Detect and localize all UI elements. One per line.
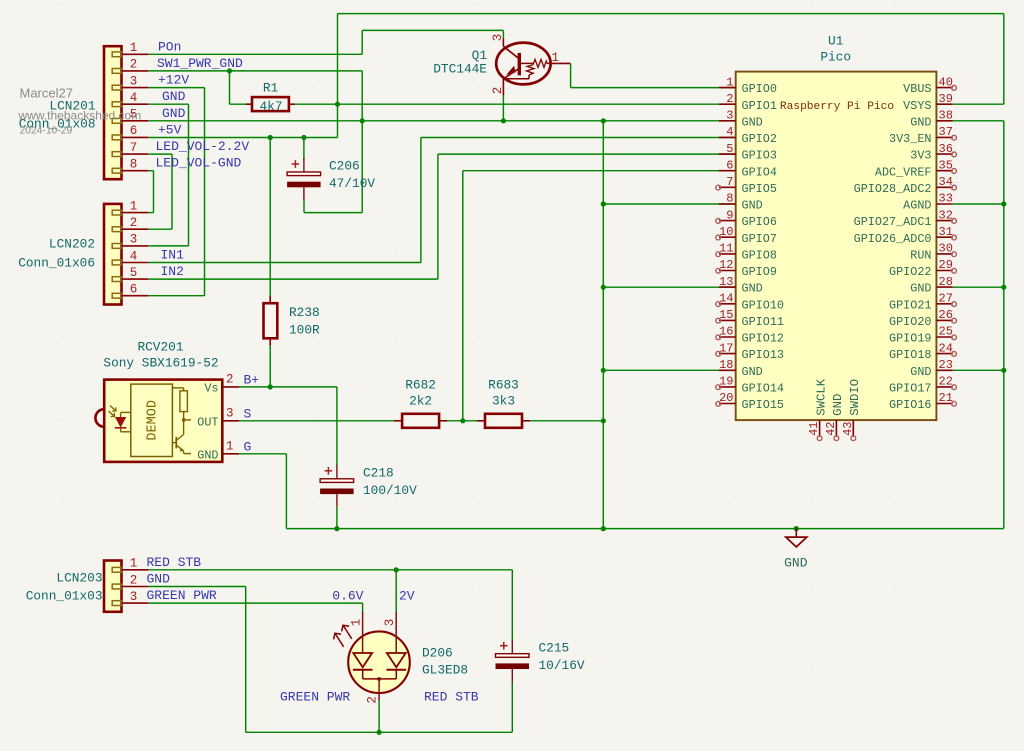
svg-text:Pico: Pico bbox=[820, 50, 851, 65]
connector LCN201 pin 6 bbox=[112, 124, 148, 140]
svg-text:1: 1 bbox=[226, 440, 234, 454]
svg-text:GPIO10: GPIO10 bbox=[742, 298, 784, 312]
wire LCN203 GND vertical bbox=[245, 587, 247, 733]
svg-text:VBUS: VBUS bbox=[903, 82, 931, 96]
IC RCV201 pin 2 Vs bbox=[204, 373, 239, 396]
wire R682 to R683 link bbox=[444, 420, 480, 422]
junction right vertical / pin 28 bbox=[1001, 285, 1006, 290]
wire B+ row from RCV201 Vs bbox=[239, 386, 337, 388]
IC RCV201 photodiode bbox=[109, 406, 131, 432]
wire R238 top vertical from +5V row bbox=[269, 138, 271, 297]
svg-text:R1: R1 bbox=[263, 81, 279, 96]
svg-text:Conn_01x03: Conn_01x03 bbox=[26, 589, 103, 604]
IC U1 pin 11 GPIO8 bbox=[716, 242, 777, 263]
svg-text:3: 3 bbox=[130, 590, 138, 604]
wire Pico pin 33 AGND link bbox=[953, 203, 1004, 205]
wire GND branch to Pico pin 18 bbox=[603, 369, 735, 371]
svg-text:2: 2 bbox=[130, 216, 138, 230]
IC U1 pin 24 GPIO18 bbox=[889, 341, 956, 362]
connector LCN202 pin 2 bbox=[112, 216, 148, 232]
wire LCN202 pin 6 row bbox=[148, 295, 204, 297]
svg-text:19: 19 bbox=[719, 375, 733, 389]
resistor R682 body bbox=[394, 414, 447, 428]
wire Q1 base vertical bbox=[570, 64, 572, 88]
wire C215 top vertical bbox=[511, 570, 513, 641]
svg-text:33: 33 bbox=[939, 192, 953, 206]
svg-text:36: 36 bbox=[939, 142, 953, 156]
svg-text:16: 16 bbox=[719, 325, 733, 339]
svg-text:2: 2 bbox=[491, 87, 505, 95]
junction right vertical / pin 23 bbox=[1001, 368, 1006, 373]
svg-text:13: 13 bbox=[719, 275, 733, 289]
IC U1 pin 30 RUN bbox=[910, 242, 956, 263]
svg-text:43: 43 bbox=[841, 422, 855, 436]
svg-text:G: G bbox=[244, 439, 252, 454]
svg-text:R683: R683 bbox=[488, 378, 519, 393]
junction GND row / Q1 emitter bbox=[501, 118, 506, 123]
junction GND vertical / R683 bbox=[601, 418, 606, 423]
junction GND vertical / Pico pin 8 bbox=[601, 201, 606, 206]
svg-text:10/16V: 10/16V bbox=[539, 658, 585, 673]
svg-text:GND: GND bbox=[784, 556, 808, 571]
junction R1 right / +5V / GPIO1 bbox=[335, 102, 340, 107]
junction bottom rail / C218 bbox=[334, 526, 339, 531]
svg-text:Conn_01x06: Conn_01x06 bbox=[18, 256, 95, 271]
svg-text:7: 7 bbox=[726, 175, 733, 189]
capacitor C206 symbol bbox=[287, 158, 321, 200]
wire GND branch to Pico pin 13 bbox=[603, 286, 735, 288]
LED D206 right diode (RED) bbox=[387, 612, 407, 679]
wire RED STB row from LCN203 pin 1 bbox=[148, 569, 512, 571]
wire GREEN PWR row from LCN203 pin 3 bbox=[148, 602, 362, 604]
grid dots (decorative) bbox=[63, 4, 979, 669]
svg-text:+5V: +5V bbox=[158, 122, 182, 137]
wire G vertical to bottom GND rail bbox=[285, 454, 287, 529]
wire VBUS top rail bbox=[338, 13, 1004, 15]
svg-text:11: 11 bbox=[719, 242, 733, 256]
IC U1 pin 12 GPIO9 bbox=[716, 258, 777, 279]
svg-text:GPIO0: GPIO0 bbox=[742, 82, 777, 96]
LED D206 emission arrows bbox=[334, 625, 352, 647]
IC RCV201 internal resistor bbox=[172, 388, 191, 435]
svg-text:3: 3 bbox=[226, 407, 234, 421]
connector LCN202 pin 4 bbox=[112, 249, 148, 265]
svg-text:GPIO26_ADC0: GPIO26_ADC0 bbox=[854, 232, 932, 246]
svg-text:R682: R682 bbox=[405, 378, 436, 393]
svg-text:VSYS: VSYS bbox=[903, 99, 931, 113]
connector LCN203 pin 1 bbox=[112, 557, 148, 573]
connector LCN201 pin 4 bbox=[112, 91, 148, 107]
wire right GND vertical bbox=[1003, 121, 1005, 529]
wire +12V vertical to LCN202 pin 6 bbox=[204, 88, 206, 296]
svg-text:3V3_EN: 3V3_EN bbox=[889, 132, 931, 146]
svg-text:23: 23 bbox=[939, 358, 953, 372]
svg-text:RED STB: RED STB bbox=[424, 690, 479, 705]
ground symbol bbox=[786, 529, 807, 547]
svg-text:GPIO15: GPIO15 bbox=[742, 398, 784, 412]
svg-text:3: 3 bbox=[383, 619, 397, 627]
svg-text:IN2: IN2 bbox=[161, 264, 184, 279]
svg-text:1: 1 bbox=[349, 619, 363, 627]
wire LED_VOL-GND row from LCN201 pin 8 bbox=[148, 170, 153, 172]
wire Pico pin 38 GND stub link bbox=[953, 120, 1004, 122]
svg-text:9: 9 bbox=[726, 208, 733, 222]
svg-text:B+: B+ bbox=[244, 373, 260, 388]
junction GND vertical / Pico pin 13 bbox=[601, 285, 606, 290]
wire D206 pin 2 vertical to rail bbox=[378, 699, 380, 732]
junction SW1_PWR_GND / R1 branch bbox=[227, 68, 232, 73]
wire IN2 row from LCN202 pin 5 bbox=[148, 278, 438, 280]
svg-text:RED STB: RED STB bbox=[147, 555, 202, 570]
svg-text:1: 1 bbox=[726, 75, 733, 89]
junction B+ row / R238 bottom bbox=[268, 384, 273, 389]
IC U1 pin 7 GPIO5 bbox=[716, 175, 777, 196]
IC U1 pin 43 SWDIO bbox=[841, 379, 862, 441]
wire IN1 vertical riser bbox=[420, 138, 422, 263]
connector LCN201 pin 5 bbox=[112, 108, 148, 124]
connector LCN201 pin 3 bbox=[112, 74, 148, 90]
svg-text:RCV201: RCV201 bbox=[137, 340, 183, 355]
svg-text:GPIO6: GPIO6 bbox=[742, 215, 777, 229]
svg-text:4: 4 bbox=[130, 249, 138, 263]
svg-text:C206: C206 bbox=[329, 159, 360, 174]
svg-text:GND: GND bbox=[910, 282, 931, 296]
svg-text:2: 2 bbox=[726, 92, 733, 106]
IC RCV201 pin 1 GND bbox=[197, 440, 239, 463]
wire R238 bottom vertical to B+ row bbox=[269, 346, 271, 387]
svg-text:GPIO17: GPIO17 bbox=[889, 382, 931, 396]
svg-text:1: 1 bbox=[130, 41, 138, 55]
junction +5V row / R238 branch bbox=[268, 135, 273, 140]
svg-text:LCN203: LCN203 bbox=[56, 571, 102, 586]
svg-text:LCN202: LCN202 bbox=[49, 237, 95, 252]
resistor R1 body bbox=[246, 97, 295, 111]
svg-text:GL3ED8: GL3ED8 bbox=[422, 663, 468, 678]
IC U1 pin 6 GPIO4 bbox=[719, 158, 777, 179]
wire Pico pin 28 GND link bbox=[953, 286, 1004, 288]
svg-text:2V: 2V bbox=[399, 589, 415, 604]
svg-text:GPIO13: GPIO13 bbox=[742, 348, 784, 362]
svg-text:GPIO9: GPIO9 bbox=[742, 265, 777, 279]
svg-text:GPIO4: GPIO4 bbox=[742, 165, 777, 179]
wire C206 top lead bbox=[303, 138, 305, 161]
IC RCV201 internal transistor bbox=[172, 435, 191, 454]
IC U1 pin 15 GPIO11 bbox=[716, 308, 784, 329]
svg-text:GPIO21: GPIO21 bbox=[889, 298, 931, 312]
svg-text:3: 3 bbox=[726, 109, 733, 123]
connector LCN201 pin 7 bbox=[112, 141, 148, 157]
svg-text:5: 5 bbox=[130, 266, 138, 280]
wire LED_VOL-2.2V row from LCN201 pin 7 bbox=[148, 153, 172, 155]
svg-text:31: 31 bbox=[939, 225, 953, 239]
wire R1 branch vertical from SW1_PWR_GND bbox=[229, 71, 231, 104]
junction GND vertical / Pico pin 18 bbox=[601, 368, 606, 373]
wire C218 top vertical bbox=[336, 387, 338, 466]
resistor R238 body bbox=[264, 296, 278, 346]
IC U1 pin 40 VBUS bbox=[903, 75, 956, 96]
wire C206 bottom lead bbox=[303, 199, 305, 213]
capacitor C218 symbol bbox=[320, 465, 354, 507]
wire SW1_PWR_GND row from LCN201 pin 2 bbox=[148, 70, 362, 72]
wire POn row from LCN201 pin 1 bbox=[148, 53, 362, 55]
wire bottom GND rail bbox=[286, 528, 1003, 530]
svg-text:25: 25 bbox=[939, 325, 953, 339]
IC U1 pin 10 GPIO7 bbox=[716, 225, 777, 246]
svg-text:1: 1 bbox=[552, 51, 560, 65]
svg-text:GND: GND bbox=[197, 448, 218, 462]
LED D206 body circle bbox=[348, 631, 410, 693]
svg-text:40: 40 bbox=[939, 75, 953, 89]
svg-text:C218: C218 bbox=[363, 466, 394, 481]
wire +5V / R1 vertical bbox=[337, 14, 339, 138]
junction R682 / R683 divider tap bbox=[460, 418, 465, 423]
IC U1 pin 37 3V3_EN bbox=[889, 125, 956, 146]
svg-text:8: 8 bbox=[726, 192, 733, 206]
wire GND long vertical bbox=[602, 121, 604, 529]
svg-text:GPIO2: GPIO2 bbox=[742, 132, 777, 146]
svg-text:IN1: IN1 bbox=[161, 248, 185, 263]
IC U1 pin 35 ADC_VREF bbox=[875, 158, 957, 179]
LED D206 common cathode link bbox=[363, 677, 397, 700]
IC U1 pin 1 GPIO0 bbox=[719, 75, 777, 96]
IC U1 pin 26 GPIO20 bbox=[889, 308, 956, 329]
svg-text:1: 1 bbox=[130, 557, 138, 571]
wire GND row from LCN201 pin 4 bbox=[148, 103, 188, 105]
wire +5V row from LCN201 pin 6 bbox=[148, 137, 337, 139]
svg-text:GPIO22: GPIO22 bbox=[889, 265, 931, 279]
junction +5V row / C206 top bbox=[301, 135, 306, 140]
svg-text:DTC144E: DTC144E bbox=[433, 62, 487, 77]
svg-text:U1: U1 bbox=[828, 34, 844, 49]
svg-text:3: 3 bbox=[130, 233, 138, 247]
svg-text:4: 4 bbox=[130, 91, 138, 105]
connector LCN202 pin 5 bbox=[112, 266, 148, 282]
svg-text:22: 22 bbox=[939, 375, 953, 389]
IC U1 pin 9 GPIO6 bbox=[716, 208, 777, 229]
svg-text:POn: POn bbox=[158, 39, 181, 54]
svg-text:SWDIO: SWDIO bbox=[848, 379, 862, 416]
wire Pico pin 23 GND link bbox=[953, 369, 1004, 371]
IC U1 pin 13 GND bbox=[719, 275, 763, 296]
svg-text:5: 5 bbox=[726, 142, 733, 156]
wire GND branch to Pico pin 8 bbox=[603, 203, 735, 205]
svg-text:LED_VOL-GND: LED_VOL-GND bbox=[156, 156, 242, 171]
connector LCN203 pin 2 bbox=[112, 573, 148, 589]
svg-text:47/10V: 47/10V bbox=[329, 176, 375, 191]
IC U1 pin 20 GPIO15 bbox=[716, 391, 784, 412]
wire LCN202 pin 3 row bbox=[148, 245, 188, 247]
svg-text:6: 6 bbox=[130, 124, 138, 138]
svg-text:18: 18 bbox=[719, 358, 733, 372]
wire POn upper segment to Q1 collector bbox=[362, 29, 503, 31]
wire GPIO0 row to Pico pin 1 bbox=[571, 87, 736, 89]
connector LCN201 pin 1 bbox=[112, 41, 148, 57]
svg-text:100/10V: 100/10V bbox=[363, 483, 417, 498]
svg-text:42: 42 bbox=[824, 422, 838, 436]
capacitor C215 symbol bbox=[496, 640, 530, 682]
IC U1 pin 33 AGND bbox=[903, 192, 953, 213]
svg-text:20: 20 bbox=[719, 391, 733, 405]
svg-text:32: 32 bbox=[939, 208, 953, 222]
svg-text:3V3: 3V3 bbox=[910, 149, 931, 163]
wire Q1 base horizontal bbox=[566, 62, 571, 64]
svg-text:2024-10-29: 2024-10-29 bbox=[20, 126, 73, 137]
svg-text:GND: GND bbox=[742, 115, 763, 129]
wire POn vertical riser bbox=[361, 30, 363, 54]
wire IN1 row from LCN202 pin 4 bbox=[148, 262, 421, 264]
IC U1 pin 27 GPIO21 bbox=[889, 292, 956, 313]
IC U1 pin 3 GND bbox=[719, 109, 763, 130]
wire C215 bottom lead bbox=[511, 681, 513, 732]
connector LCN202 pin 1 bbox=[112, 199, 148, 215]
svg-text:OUT: OUT bbox=[197, 415, 218, 429]
wire VBUS right vertical bbox=[1003, 14, 1005, 105]
wire D206 pin 1 vertical bbox=[362, 603, 364, 613]
svg-text:GPIO7: GPIO7 bbox=[742, 232, 777, 246]
wire G row from RCV201 GND bbox=[239, 453, 286, 455]
wire GND row from LCN201 pin 5 to Pico pin 3 bbox=[148, 120, 735, 122]
svg-text:17: 17 bbox=[719, 341, 733, 355]
junction RED STB / D206 pin 3 bbox=[394, 567, 399, 572]
wire GPIO4 row to Pico pin 6 bbox=[463, 170, 736, 172]
IC U1 pin 36 3V3 bbox=[910, 142, 956, 163]
wire LED_VOL-GND vertical to LCN202 pin 1 bbox=[153, 171, 155, 213]
svg-text:27: 27 bbox=[939, 292, 953, 306]
svg-text:41: 41 bbox=[807, 422, 821, 436]
svg-text:10: 10 bbox=[719, 225, 733, 239]
wire GPIO1 row to Pico pin 2 bbox=[338, 103, 736, 105]
svg-text:GREEN PWR: GREEN PWR bbox=[147, 588, 217, 603]
svg-text:GND: GND bbox=[742, 365, 763, 379]
svg-text:2: 2 bbox=[130, 58, 138, 72]
svg-text:D206: D206 bbox=[422, 646, 453, 661]
IC U1 pin 5 GPIO3 bbox=[719, 142, 777, 163]
connector LCN203 body bbox=[104, 561, 122, 612]
IC U1 pin 22 GPIO17 bbox=[889, 375, 956, 396]
IC U1 pin 41 SWCLK bbox=[807, 378, 828, 440]
svg-text:100R: 100R bbox=[289, 323, 320, 338]
IC U1 pin 2 GPIO1 bbox=[719, 92, 777, 113]
wire GND row from LCN203 pin 2 bbox=[148, 586, 245, 588]
svg-text:GPIO28_ADC2: GPIO28_ADC2 bbox=[854, 182, 932, 196]
svg-text:8: 8 bbox=[130, 158, 138, 172]
svg-text:GPIO5: GPIO5 bbox=[742, 182, 777, 196]
svg-text:GND: GND bbox=[162, 106, 186, 121]
wire VSYS pin 39 stub extension bbox=[953, 103, 1004, 105]
svg-text:GPIO18: GPIO18 bbox=[889, 348, 931, 362]
junction bottom rail / GND symbol bbox=[794, 526, 799, 531]
svg-text:DEMOD: DEMOD bbox=[146, 400, 161, 441]
wire S row from RCV201 OUT bbox=[239, 420, 397, 422]
IC U1 pin 18 GND bbox=[719, 358, 763, 379]
wire Q1 emitter vertical to GND row bbox=[502, 95, 504, 121]
svg-text:2: 2 bbox=[365, 696, 379, 704]
svg-text:GND: GND bbox=[162, 89, 186, 104]
svg-text:7: 7 bbox=[130, 141, 138, 155]
IC U1 pin 21 GPIO16 bbox=[889, 391, 956, 412]
svg-text:Sony SBX1619-52: Sony SBX1619-52 bbox=[103, 356, 218, 371]
svg-text:GPIO19: GPIO19 bbox=[889, 332, 931, 346]
wire R1 right lead bbox=[295, 103, 338, 105]
svg-text:S: S bbox=[244, 406, 252, 421]
connector LCN202 body bbox=[104, 204, 122, 305]
svg-text:26: 26 bbox=[939, 308, 953, 322]
svg-text:6: 6 bbox=[130, 283, 138, 297]
svg-text:Vs: Vs bbox=[204, 381, 218, 395]
svg-text:2k2: 2k2 bbox=[409, 394, 432, 409]
connector LCN202 pin 3 bbox=[112, 233, 148, 249]
junction right vertical / pin 33 bbox=[1001, 201, 1006, 206]
transistor Q1 DTC144E symbol bbox=[496, 39, 570, 95]
wire divider tap vertical to GPIO4 bbox=[462, 171, 464, 421]
svg-text:14: 14 bbox=[719, 292, 733, 306]
junction GND row / GND long vertical bbox=[601, 118, 606, 123]
wire GND vertical to LCN202 pin 3 bbox=[188, 104, 190, 246]
svg-text:0.6V: 0.6V bbox=[332, 589, 363, 604]
IC U1 pin 34 GPIO28_ADC2 bbox=[854, 175, 957, 196]
connector LCN202 pin 6 bbox=[112, 283, 148, 299]
wire R1 left lead bbox=[230, 103, 247, 105]
svg-text:RUN: RUN bbox=[910, 249, 931, 263]
wire C218 bottom lead bbox=[336, 507, 338, 529]
svg-text:Raspberry Pi Pico: Raspberry Pi Pico bbox=[780, 101, 894, 113]
wire LCN202 pin 1 row bbox=[148, 212, 153, 214]
svg-text:15: 15 bbox=[719, 308, 733, 322]
svg-text:29: 29 bbox=[939, 258, 953, 272]
svg-text:3: 3 bbox=[491, 34, 505, 42]
svg-text:GPIO14: GPIO14 bbox=[742, 382, 784, 396]
svg-text:+12V: +12V bbox=[158, 73, 189, 88]
svg-text:LED_VOL-2.2V: LED_VOL-2.2V bbox=[156, 139, 250, 154]
wire IN2 vertical riser bbox=[437, 154, 439, 279]
wire +12V row from LCN201 pin 3 bbox=[148, 87, 204, 89]
svg-text:GPIO8: GPIO8 bbox=[742, 249, 777, 263]
svg-text:C215: C215 bbox=[539, 641, 570, 656]
LED D206 left diode (GREEN) bbox=[353, 612, 373, 679]
svg-text:GND: GND bbox=[910, 115, 931, 129]
svg-text:Marcel27: Marcel27 bbox=[20, 86, 73, 101]
wire C206 bottom horizontal bbox=[304, 212, 362, 214]
svg-text:30: 30 bbox=[939, 242, 953, 256]
svg-text:2: 2 bbox=[130, 573, 138, 587]
wire Q1 collector drop bbox=[502, 30, 504, 39]
svg-text:GND: GND bbox=[742, 199, 763, 213]
svg-text:GPIO16: GPIO16 bbox=[889, 398, 931, 412]
svg-text:GPIO27_ADC1: GPIO27_ADC1 bbox=[854, 215, 932, 229]
IC U1 pin 29 GPIO22 bbox=[889, 258, 956, 279]
svg-text:SWCLK: SWCLK bbox=[814, 378, 828, 416]
IC U1 pin 38 GND bbox=[910, 109, 953, 130]
svg-text:AGND: AGND bbox=[903, 199, 931, 213]
svg-text:GREEN PWR: GREEN PWR bbox=[280, 690, 350, 705]
junction GND row / SW1 vertical bbox=[360, 118, 365, 123]
svg-text:R238: R238 bbox=[289, 305, 320, 320]
svg-text:www.thebackshed.com: www.thebackshed.com bbox=[18, 109, 142, 123]
svg-text:GND: GND bbox=[910, 365, 931, 379]
wire SW1_PWR_GND vertical to GND row and C206 bbox=[361, 71, 363, 213]
svg-text:SW1_PWR_GND: SW1_PWR_GND bbox=[157, 56, 243, 71]
IC U1 pin 25 GPIO19 bbox=[889, 325, 956, 346]
resistor R683 body bbox=[477, 414, 530, 428]
svg-text:3k3: 3k3 bbox=[492, 394, 515, 409]
wire R683 right lead to GND vertical bbox=[527, 420, 603, 422]
wire D206 pin 3 vertical bbox=[395, 570, 397, 613]
svg-text:1: 1 bbox=[130, 199, 138, 213]
IC U1 pin 17 GPIO13 bbox=[716, 341, 784, 362]
svg-text:ADC_VREF: ADC_VREF bbox=[875, 165, 932, 179]
svg-text:12: 12 bbox=[719, 258, 733, 272]
IC U1 pin 8 GND bbox=[719, 192, 763, 213]
